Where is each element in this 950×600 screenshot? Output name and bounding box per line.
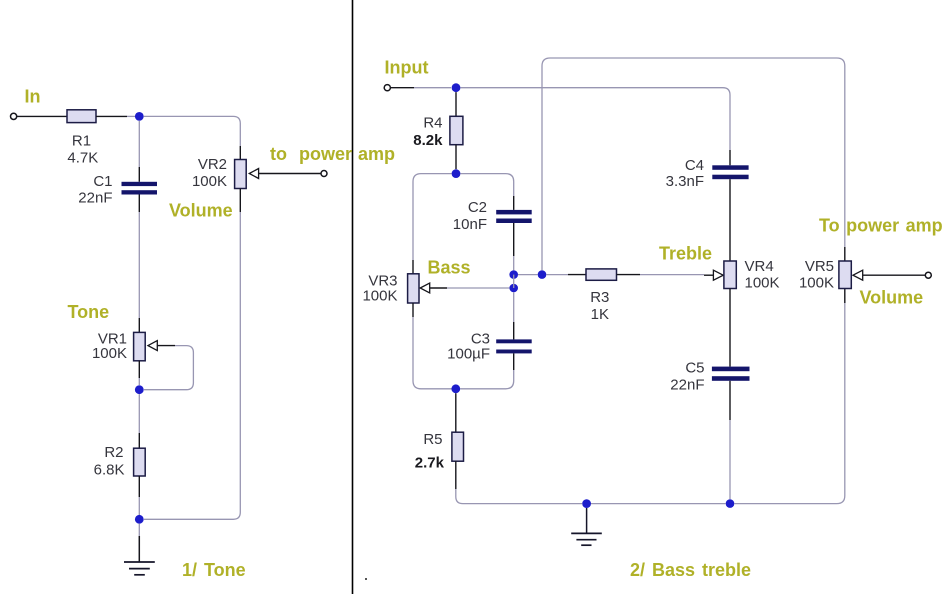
wire node A to VR2 top (rounded corner) (144, 116, 241, 159)
wire VR1 bottom to node B (138, 361, 140, 385)
svg-text:100K: 100K (192, 173, 227, 190)
stray dot mark (365, 578, 367, 580)
inner loop left : node E to VR3 top (413, 174, 452, 274)
svg-text:Treble: Treble (659, 244, 712, 264)
svg-text:To power amp: To power amp (819, 216, 943, 236)
label C2 10nF (453, 199, 487, 233)
net label Volume (right) (860, 288, 924, 308)
label C5 22nF (670, 360, 704, 394)
capacitor C1 (122, 182, 158, 195)
svg-text:R3: R3 (590, 289, 609, 306)
wire C2 bottom to node F (513, 223, 515, 270)
svg-text:R4: R4 (423, 115, 442, 132)
svg-text:C1: C1 (93, 173, 112, 190)
label R3 1K (590, 289, 609, 323)
wire R1 to node A (96, 115, 135, 117)
svg-text:4.7K: 4.7K (67, 150, 98, 167)
node G junction dot (wiper node) (509, 284, 518, 293)
wire Input terminal to node D (391, 87, 451, 89)
svg-text:VR2: VR2 (198, 156, 227, 173)
ground (left circuit) (124, 562, 155, 575)
wire node C to ground (138, 524, 140, 562)
wire node I to R3 (546, 274, 586, 276)
net label to power amp (270, 144, 395, 164)
potentiometer VR5 (839, 261, 851, 289)
wire C5 bottom to node J (729, 381, 731, 499)
resistor R2 (134, 448, 146, 476)
svg-text:10nF: 10nF (453, 216, 487, 233)
potentiometer VR3 (408, 274, 419, 303)
svg-text:Bass: Bass (428, 258, 471, 278)
node J junction dot (726, 499, 735, 508)
VR3 wiper arrow (420, 283, 430, 293)
wire R3 to VR4 wiper (617, 274, 714, 277)
svg-text:22nF: 22nF (78, 190, 112, 207)
svg-text:Tone: Tone (68, 302, 110, 322)
wire C3 bottom to inner loop bottom (460, 353, 514, 388)
resistor R1 (67, 110, 96, 123)
svg-text:1/ Tone: 1/ Tone (182, 560, 246, 580)
node A junction dot (135, 112, 144, 121)
node C junction dot (135, 515, 144, 524)
wire VR5 wiper to output terminal (863, 274, 925, 276)
ground (right circuit) (571, 533, 602, 545)
ground rail node K to node J (591, 503, 726, 505)
title 2/ Bass treble (630, 560, 751, 580)
wire node D right to C4 top (rounded corner) (460, 88, 730, 166)
svg-text:Volume: Volume (169, 201, 233, 221)
terminal Input (open circle) (384, 85, 390, 91)
capacitor C4 (712, 165, 748, 179)
terminal to power amp (open circle) (321, 171, 327, 177)
wire R2 to node C (138, 476, 140, 515)
net label Tone (68, 302, 110, 322)
label VR5 100K (799, 258, 834, 292)
svg-text:6.8K: 6.8K (94, 462, 125, 479)
svg-text:Volume: Volume (860, 288, 924, 308)
net label Volume (left) (169, 201, 233, 221)
capacitor C2 (496, 210, 532, 223)
svg-text:100K: 100K (92, 345, 127, 362)
svg-text:VR4: VR4 (745, 258, 774, 275)
wire node G down to C3 (513, 292, 515, 339)
divider line between circuits (352, 0, 354, 594)
node D junction dot (452, 83, 461, 92)
wire R4 to node E (455, 145, 457, 170)
svg-text:100µF: 100µF (447, 346, 490, 363)
resistor R4 (450, 116, 463, 144)
wire node B to R2 (138, 394, 140, 448)
svg-text:C5: C5 (685, 360, 704, 377)
wire In terminal to R1 (17, 115, 67, 117)
net label To power amp (819, 216, 943, 236)
potentiometer VR2 (235, 160, 247, 189)
wire VR4 bottom to C5 (729, 289, 731, 367)
svg-text:2/ Bass treble: 2/ Bass treble (630, 560, 751, 580)
svg-text:2.7k: 2.7k (415, 455, 445, 472)
VR2 wiper arrow (249, 169, 258, 179)
label VR4 100K (745, 258, 780, 292)
resistor R5 (452, 432, 464, 461)
net label Treble (659, 244, 712, 264)
wire node H down to R5 (455, 393, 457, 432)
potentiometer VR1 (134, 332, 146, 360)
svg-text:to power amp: to power amp (270, 144, 395, 164)
wire R5 bottom to ground rail (rounded corner) (456, 461, 582, 503)
node B junction dot (135, 385, 144, 394)
wire node I up over the top to VR5 top (outer loop) (542, 58, 845, 270)
svg-text:In: In (25, 87, 41, 107)
label VR1 100K (92, 331, 127, 363)
label C3 100uF (447, 331, 490, 363)
wire C4 bottom to VR4 top (729, 179, 731, 261)
wire VR2 wiper to output terminal (259, 173, 321, 175)
svg-text:8.2k: 8.2k (413, 132, 443, 149)
inner loop bottom left : VR3 bottom to node H (413, 303, 452, 389)
terminal To power amp (open circle) (925, 272, 931, 278)
capacitor C5 (712, 367, 750, 381)
svg-text:100K: 100K (799, 275, 834, 292)
svg-text:R5: R5 (423, 431, 442, 448)
svg-text:3.3nF: 3.3nF (666, 173, 704, 190)
node K junction dot (ground node) (582, 499, 591, 508)
terminal In (input open circle) (11, 113, 17, 119)
net label Input (385, 58, 429, 78)
node F junction dot (509, 270, 518, 279)
title 1/ Tone (182, 560, 246, 580)
svg-text:1K: 1K (591, 306, 609, 323)
wire VR1 wiper loop to bottom node (144, 346, 193, 390)
label C4 3.3nF (666, 157, 704, 190)
ground rail node J to VR5 bottom (rounded corner) (734, 289, 844, 504)
svg-text:R1: R1 (72, 132, 91, 149)
label R2 6.8K (94, 444, 125, 479)
VR1 wiper arrow (148, 341, 157, 351)
svg-text:100K: 100K (362, 288, 397, 305)
svg-text:R2: R2 (104, 444, 123, 461)
node H junction dot (451, 384, 460, 393)
resistor R3 (586, 269, 617, 280)
svg-text:22nF: 22nF (670, 377, 704, 394)
inner loop right : node E to C2 top (460, 174, 513, 210)
VR4 wiper arrow (pointing right) (713, 270, 723, 280)
net label Bass (428, 258, 471, 278)
label VR2 100K (192, 156, 227, 190)
ground stem (right circuit) (586, 508, 588, 533)
wire C1 bottom to VR1 top (138, 195, 140, 333)
label R4 8.2k (413, 115, 443, 149)
label VR3 100K (362, 273, 397, 305)
svg-text:VR5: VR5 (805, 258, 834, 275)
wire VR3 wiper to node G (430, 287, 510, 289)
capacitor C3 (496, 339, 532, 353)
wire node F to node I (518, 274, 538, 276)
node I junction dot (538, 270, 547, 279)
wire VR2 bottom down and left to bottom node (rounded corners) (144, 189, 240, 520)
svg-text:C4: C4 (685, 157, 704, 174)
svg-text:C2: C2 (468, 199, 487, 216)
net label In (25, 87, 41, 107)
node E junction dot (452, 169, 461, 178)
wire node D to R4 (455, 92, 457, 116)
label R5 2.7k (415, 431, 445, 472)
wire between node F and node G (513, 275, 515, 288)
wire node A down to C1 (138, 121, 140, 182)
label C1 22nF (78, 173, 112, 207)
VR5 wiper arrow (pointing left) (853, 270, 863, 280)
svg-text:Input: Input (385, 58, 429, 78)
svg-text:100K: 100K (745, 275, 780, 292)
label R1 4.7K (67, 132, 98, 166)
potentiometer VR4 (724, 261, 736, 289)
